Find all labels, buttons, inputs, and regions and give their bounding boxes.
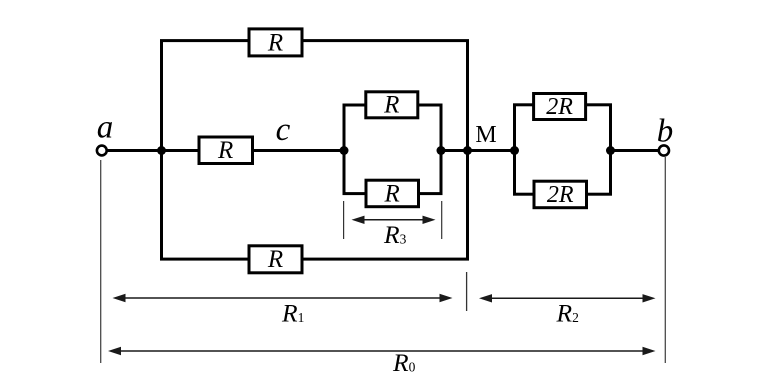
svg-text:b: b (657, 114, 674, 150)
resistor 2R (right group, bottom) (534, 181, 587, 208)
svg-text:R: R (217, 137, 233, 164)
dimension arrow R1 (113, 294, 453, 302)
wire: from 2R group to terminal b (611, 149, 660, 152)
svg-text:c: c (276, 112, 291, 148)
svg-text:R: R (267, 29, 283, 56)
dimension extension line below terminal b (664, 157, 666, 363)
svg-text:2R: 2R (546, 94, 573, 120)
node junction left (at a branch split) (157, 146, 166, 155)
wire: outer loop rectangle (top branch, left vertical, right vertical, bottom branch) (162, 41, 468, 260)
svg-text:M: M (475, 122, 496, 148)
dimension extension line below terminal a (100, 160, 102, 363)
svg-text:a: a (97, 110, 114, 146)
dimension extension line right of R3 span (441, 201, 443, 239)
resistor R (R3 group, bottom) (366, 180, 419, 207)
resistor R (top branch) (249, 29, 302, 56)
dimension extension line left of R3 span (343, 201, 345, 239)
svg-text:R: R (384, 180, 400, 207)
node junction left of 2R group (510, 146, 519, 155)
resistor R (bottom branch) (249, 246, 302, 273)
node c junction (left of R3 group) (340, 146, 349, 155)
dimension arrow R2 (479, 294, 656, 302)
dimension arrow R3 (352, 216, 436, 224)
dimension extension line below node M (466, 272, 468, 311)
resistor 2R (right group, top) (534, 94, 586, 121)
svg-text:R: R (267, 246, 283, 273)
node junction right of R3 group (437, 146, 446, 155)
resistor R (middle branch) (199, 137, 253, 164)
node M junction (463, 146, 472, 155)
svg-text:R: R (383, 92, 399, 119)
resistor R (R3 group, top) (366, 92, 418, 119)
wire: R3 parallel group loop (344, 105, 441, 194)
svg-text:2R: 2R (547, 182, 574, 208)
wire: from R3 group to 2R group through node M (441, 149, 515, 152)
dimension arrow R0 (108, 347, 656, 355)
wire: 2R parallel group loop (515, 105, 611, 194)
wire: main middle wire from a to node c-junction (106, 149, 345, 152)
terminal b (659, 145, 669, 155)
node junction right of 2R group (606, 146, 615, 155)
terminal a (97, 146, 107, 156)
